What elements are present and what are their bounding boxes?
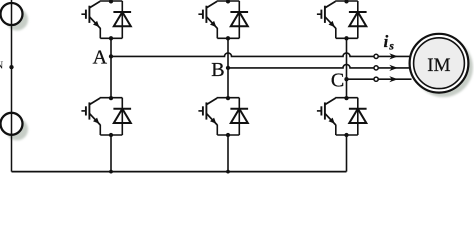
svg-text:N: N [0, 59, 3, 71]
wire: left DC rail [11, 0, 13, 172]
motor M1: outer circle [410, 34, 469, 93]
wire: module top rail segment (Q4) [217, 97, 240, 99]
node junction dot on top line of Q6 [344, 96, 348, 100]
wire: leg A upper (top module to node A) and lower (to bottom module) [110, 38, 112, 97]
terminal circle phase B [374, 66, 378, 70]
junction dot on bottom line of Q6 [344, 133, 348, 137]
current arrow on phase C lead [389, 76, 398, 82]
node junction dot on top line of Q3 [226, 0, 230, 4]
shadow of source V2 [6, 118, 28, 140]
svg-text:B: B [211, 59, 224, 81]
junction dot on bottom line of Q4 [226, 133, 230, 137]
motor M1: inner circle [414, 38, 465, 89]
wire: leg B from bottom module to bottom bus [227, 135, 229, 172]
junction dot: leg A at bottom bus [109, 170, 113, 174]
node junction dot on top line of Q5 [344, 0, 348, 4]
transistor Q3 (IGBT) [198, 1, 217, 38]
transistor Q2 (IGBT) [81, 98, 100, 135]
svg-text:IM: IM [427, 55, 450, 76]
wire: module bottom connection of Q5 [336, 37, 358, 39]
current arrow on phase B lead [389, 65, 398, 71]
wire: bottom DC bus [12, 171, 347, 173]
wire: module bottom connection of Q4 [217, 134, 239, 136]
junction dot on bottom line of Q2 [109, 133, 113, 137]
node A junction dot [109, 54, 113, 58]
node junction dot on top line of Q4 [226, 96, 230, 100]
junction dot on bottom line of Q3 [226, 36, 230, 40]
svg-text:C: C [331, 70, 344, 92]
wire: module bottom connection of Q6 [336, 134, 358, 136]
node junction dot on top line of Q1 [109, 0, 113, 4]
transistor Q5 (IGBT) [317, 1, 336, 38]
wire: module bottom connection of Q2 [100, 134, 122, 136]
junction dot on bottom line of Q1 [109, 36, 113, 40]
transistor Q1 (IGBT) [81, 1, 100, 38]
shadow of source V1 [6, 9, 28, 31]
node C junction dot [344, 77, 348, 81]
wire: leg B upper (top module to node B) and lower (to bottom module) [227, 38, 229, 97]
junction dot: leg B at bottom bus [226, 170, 230, 174]
wire: module top rail segment (Q1) [100, 0, 123, 2]
wire: module top rail segment (Q5) [335, 0, 358, 2]
wire: leg C from bottom module to bottom bus [346, 135, 348, 172]
diode D1 (anti-parallel) [113, 1, 131, 38]
diode D4 (anti-parallel) [230, 98, 248, 135]
junction dot on bottom line of Q5 [344, 36, 348, 40]
wire: phase C output line [347, 78, 374, 80]
wire: leg C upper (top module to node C) and lower (to bottom module) [346, 38, 348, 97]
node N junction dot [9, 65, 13, 69]
terminal circle phase A [374, 54, 378, 58]
node B junction dot [226, 66, 230, 70]
wire: module bottom connection of Q3 [217, 37, 239, 39]
diode D6 (anti-parallel) [349, 98, 367, 135]
shadow of motor [414, 38, 473, 97]
current arrow on phase A lead [389, 53, 398, 59]
wire: module top rail segment (Q6) [335, 97, 358, 99]
diode D3 (anti-parallel) [230, 1, 248, 38]
transistor Q6 (IGBT) [317, 98, 336, 135]
wire: module bottom connection of Q1 [100, 37, 122, 39]
diode D5 (anti-parallel) [349, 1, 367, 38]
wire: phase A output line with hops over legs B and C [111, 53, 374, 57]
svg-text:A: A [93, 46, 108, 68]
voltage source V2 (lower DC source circle) [1, 113, 23, 135]
wire: leg A from bottom module to bottom bus [110, 135, 112, 172]
wire: phase B output line with hop over leg C [228, 64, 374, 67]
voltage source V1 (upper DC source circle) [1, 3, 23, 25]
wire: stator lead phase C [378, 78, 411, 80]
node junction dot on top line of Q2 [109, 96, 113, 100]
wire: module top rail segment (Q3) [217, 0, 240, 2]
wire: stator lead phase A [378, 55, 411, 57]
diode D2 (anti-parallel) [113, 98, 131, 135]
wire: stator lead phase B [378, 67, 411, 69]
transistor Q4 (IGBT) [198, 98, 217, 135]
terminal circle phase C [374, 77, 378, 81]
wire: module top rail segment (Q2) [100, 97, 123, 99]
